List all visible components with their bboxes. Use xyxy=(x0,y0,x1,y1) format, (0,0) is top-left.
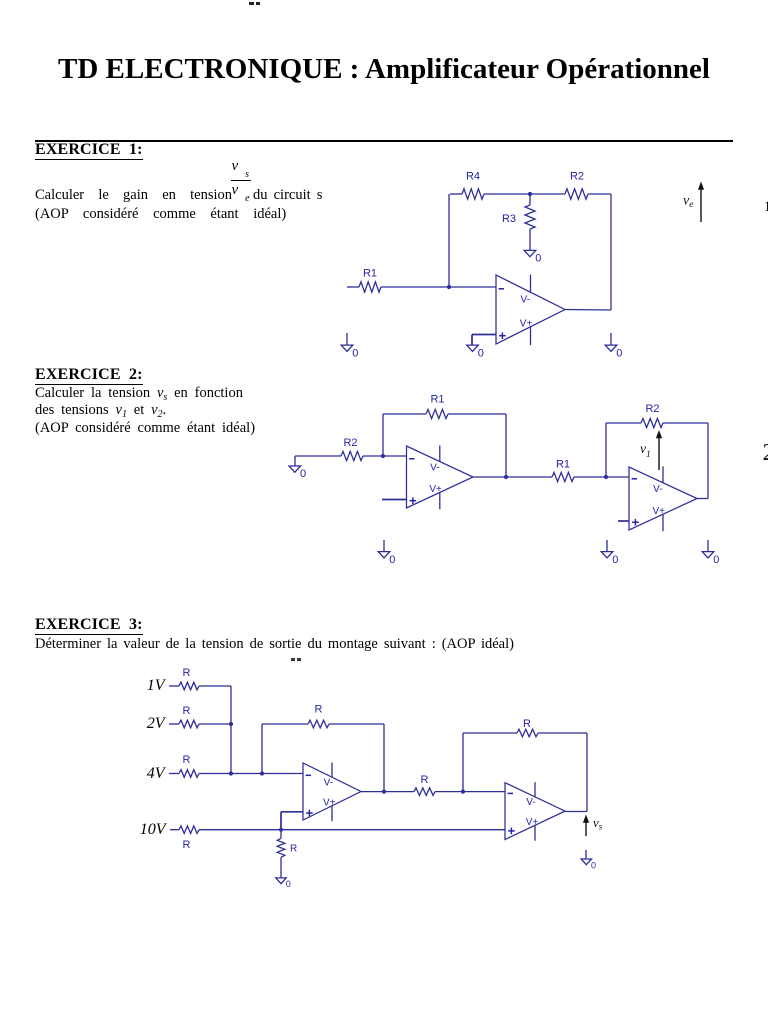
exercice 3 paragraph xyxy=(35,637,514,652)
node U2 output/feedback xyxy=(504,475,508,479)
source label 4V xyxy=(147,766,165,782)
wire U4 + input xyxy=(281,811,303,813)
ground stub output xyxy=(585,850,587,859)
node inverting input U2 xyxy=(381,454,385,458)
wire feedback down to output xyxy=(505,414,507,477)
svg-text:0: 0 xyxy=(300,468,306,480)
svg-text:V-: V- xyxy=(521,294,530,305)
svg-text:R2: R2 xyxy=(343,437,357,449)
wire 1V source lead xyxy=(169,685,179,687)
header exercice 3 xyxy=(35,617,143,635)
wire op-amp output xyxy=(565,309,611,312)
wire 10V rail to U5 + input xyxy=(199,829,505,831)
node feedback tap xyxy=(260,771,264,775)
node inverting input U5 xyxy=(461,790,465,794)
svg-text:0: 0 xyxy=(713,554,719,566)
svg-text:R3: R3 xyxy=(502,213,516,225)
svg-text:0: 0 xyxy=(616,347,622,359)
svg-text:V+: V+ xyxy=(520,318,533,329)
svg-text:0: 0 xyxy=(591,860,596,870)
op-amp U1 xyxy=(496,275,565,344)
ground under U3 xyxy=(601,552,613,558)
arrow vs xyxy=(585,821,587,837)
stray header marks xyxy=(249,2,254,5)
exercice 2 paragraph xyxy=(35,385,255,437)
ground near output xyxy=(605,345,617,351)
svg-text:V+: V+ xyxy=(653,506,666,517)
source label 2V xyxy=(147,716,165,732)
arrow v1 xyxy=(658,436,660,470)
resistor R input 2V xyxy=(179,720,199,728)
source label 10V xyxy=(140,822,166,838)
wire feedback2 top right xyxy=(538,732,587,734)
svg-text:0: 0 xyxy=(286,879,291,889)
svg-text:0: 0 xyxy=(478,347,484,359)
wire feedback2 down xyxy=(586,733,588,812)
wire feedback left vertical xyxy=(448,194,450,287)
wire feedback1 top left xyxy=(262,723,308,725)
ground at output vs xyxy=(581,859,591,865)
wire U5 output xyxy=(565,811,587,813)
document title xyxy=(0,55,768,84)
resistor R input 1V xyxy=(179,682,199,690)
ground stub under U2 xyxy=(383,540,385,552)
ground stub under feedback2 xyxy=(707,540,709,552)
resistor R feedback U5 xyxy=(517,729,538,737)
wire output feedback right vertical xyxy=(610,194,612,310)
svg-text:0: 0 xyxy=(389,554,395,566)
node bus/4V xyxy=(229,771,233,775)
node bus/2V xyxy=(229,722,233,726)
ground stub left xyxy=(346,333,348,345)
wire feedback top right xyxy=(448,413,506,415)
svg-text:V-: V- xyxy=(526,797,535,808)
resistor R between stages xyxy=(414,788,435,796)
svg-text:R: R xyxy=(315,704,323,716)
resistor R to ground xyxy=(277,838,285,857)
ground stub right xyxy=(610,333,612,345)
svg-text:R4: R4 xyxy=(466,171,480,183)
op-amp U5 xyxy=(505,783,565,840)
header exercice 1 xyxy=(35,142,143,160)
resistor R2 feedback stage2 xyxy=(641,418,663,427)
ground under divider R xyxy=(276,878,286,884)
wire 1V to bus xyxy=(199,685,231,687)
wire feedback1 down xyxy=(383,724,385,792)
wire R4 left lead xyxy=(450,193,462,195)
svg-text:V+: V+ xyxy=(526,817,539,828)
svg-text:0: 0 xyxy=(612,554,618,566)
wire R3 top lead xyxy=(529,194,531,205)
wire 10V source lead xyxy=(170,829,179,831)
wire feedback2 top left xyxy=(606,422,641,424)
resistor R4 xyxy=(462,189,484,199)
svg-text:R: R xyxy=(183,667,191,679)
svg-text:R1: R1 xyxy=(430,394,444,406)
wire R1 to inverting input U3 xyxy=(574,476,629,478)
wire feedback2 up xyxy=(605,423,607,477)
svg-text:R1: R1 xyxy=(556,459,570,471)
wire input to R2 xyxy=(295,455,341,457)
node junction R1/R4 xyxy=(447,285,451,289)
resistor R3 xyxy=(525,205,535,229)
op-amp U3 xyxy=(629,467,697,530)
node inverting input U3 xyxy=(604,475,608,479)
wire feedback2 top left xyxy=(463,732,517,734)
ground stub under U3 xyxy=(606,540,608,552)
wire U3 output xyxy=(697,498,708,500)
svg-text:R: R xyxy=(183,705,191,717)
stray marks under paragraph xyxy=(291,658,295,661)
ground at + input U1 xyxy=(467,345,479,351)
wire U2 + input stub xyxy=(382,499,407,501)
ground under R3 xyxy=(524,250,536,256)
ground under U2 xyxy=(378,552,390,558)
wire U3 + input stub xyxy=(618,520,629,522)
wire to vertical R xyxy=(280,830,282,839)
ground stub input xyxy=(294,456,296,466)
wire U2 output xyxy=(473,476,552,478)
exercice 1 paragraph line 2 xyxy=(35,207,286,222)
resistor R2 (stage 1) xyxy=(341,451,363,460)
wire non-inverting input xyxy=(472,334,496,336)
svg-text:v1: v1 xyxy=(640,441,651,460)
wire R3 to ground xyxy=(529,229,531,250)
resistor R feedback U4 xyxy=(308,720,329,728)
wire 2V source lead xyxy=(169,723,179,725)
wire feedback2 down xyxy=(707,423,709,499)
resistor R input 10V xyxy=(179,826,199,834)
svg-text:vs: vs xyxy=(593,815,603,832)
op-amp U2 xyxy=(407,446,474,508)
svg-text:R: R xyxy=(421,774,429,786)
resistor R1 feedback stage1 xyxy=(426,409,448,418)
wire feedback up xyxy=(382,414,384,456)
resistor R1 xyxy=(359,282,381,292)
svg-text:V-: V- xyxy=(324,778,333,789)
svg-text:R2: R2 xyxy=(645,403,659,415)
svg-text:R2: R2 xyxy=(570,171,584,183)
header exercice 2 xyxy=(35,367,143,385)
wire node to R2 xyxy=(530,193,565,195)
ground at input R2 xyxy=(289,466,301,472)
horizontal rule xyxy=(35,140,733,142)
wire R2 to inverting input U2 xyxy=(363,455,407,457)
wire feedback2 top right xyxy=(663,422,708,424)
wire feedback top left xyxy=(383,413,426,415)
svg-text:R: R xyxy=(183,754,191,766)
svg-text:R: R xyxy=(290,844,297,855)
wire R to ground xyxy=(280,857,282,878)
arrow ve xyxy=(700,188,702,223)
wire to ground at + input xyxy=(471,335,473,346)
svg-text:V-: V- xyxy=(653,484,662,495)
wire summing bus vertical xyxy=(230,686,232,774)
wire R1 to op-amp inverting input xyxy=(381,286,496,288)
exercice 1 paragraph line 1 xyxy=(35,188,232,203)
node junction R4/R2/R3 xyxy=(528,192,532,196)
wire feedback2 up xyxy=(462,733,464,792)
wire 4V source lead xyxy=(169,773,179,775)
wire R4 to node xyxy=(484,193,530,195)
wire R to U5 inverting input xyxy=(435,791,505,793)
ground near R1 input xyxy=(341,345,353,351)
svg-text:V-: V- xyxy=(430,463,439,474)
node 10V rail / divider xyxy=(279,828,283,832)
resistor R2 xyxy=(565,189,588,199)
wire feedback1 up xyxy=(261,724,263,774)
source label 1V xyxy=(147,678,165,694)
svg-text:1.: 1. xyxy=(764,199,768,215)
wire R1 left lead xyxy=(347,286,359,288)
resistor R1 (between stages) xyxy=(552,472,574,481)
wire 4V to U4 inverting input xyxy=(199,773,303,775)
svg-text:R: R xyxy=(183,839,191,851)
wire + input down to 10V rail xyxy=(280,812,282,830)
svg-text:ve: ve xyxy=(683,194,693,211)
svg-text:V+: V+ xyxy=(429,484,442,495)
wire R2 right lead xyxy=(588,193,611,195)
ground under output U3 xyxy=(702,552,714,558)
svg-text:V+: V+ xyxy=(323,798,336,809)
wire 2V to bus xyxy=(199,723,231,725)
wire U4 output xyxy=(361,791,414,793)
resistor R input 4V xyxy=(179,770,199,778)
fraction vs/ve xyxy=(232,159,250,175)
wire feedback1 top right xyxy=(329,723,384,725)
svg-text:0: 0 xyxy=(535,253,541,265)
svg-text:R: R xyxy=(523,718,531,730)
svg-text:0: 0 xyxy=(352,347,358,359)
svg-text:R1: R1 xyxy=(363,268,377,280)
node U4 output xyxy=(382,790,386,794)
op-amp U4 xyxy=(303,763,361,820)
svg-text:2.: 2. xyxy=(763,440,768,466)
